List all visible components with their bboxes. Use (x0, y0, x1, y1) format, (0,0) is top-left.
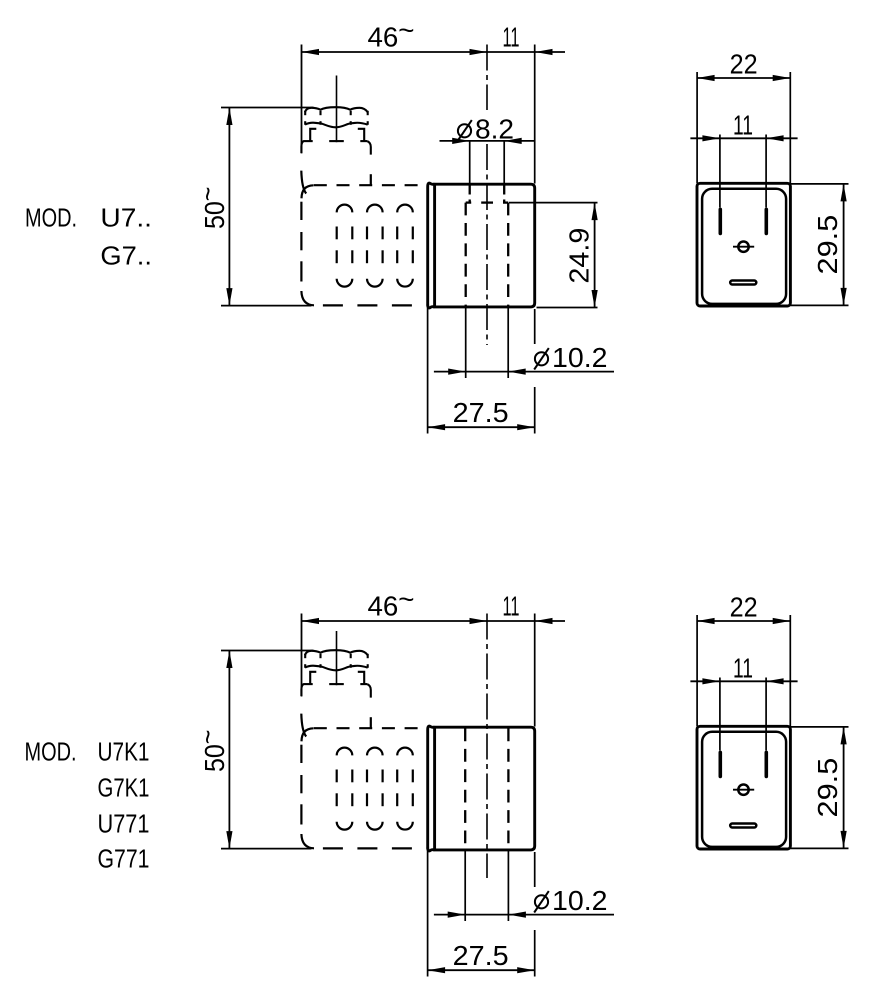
gland right leg (358, 672, 364, 684)
dimension 22 line (697, 618, 790, 624)
dimension 50~ top extension line (221, 107, 314, 109)
connector vent slot 3 (397, 205, 413, 287)
face ground slot (730, 281, 756, 285)
svg-text:11: 11 (733, 653, 753, 684)
dimension 11 face line (690, 135, 797, 141)
connector housing bottom edge dashed (323, 304, 428, 306)
svg-text:24.9: 24.9 (564, 228, 595, 284)
dimension 11 right extension line fig2 (534, 614, 536, 727)
dimension o10.2 line (434, 369, 614, 375)
svg-text:U7K1: U7K1 (98, 737, 150, 767)
dimension 50~ line (226, 108, 232, 306)
connector neck right dash (370, 174, 372, 185)
dimension 11 face extension lines (720, 678, 766, 751)
connector vent slot 2 (367, 205, 383, 287)
svg-text:G7..: G7.. (100, 241, 152, 271)
dimension o8.2 text (458, 124, 471, 137)
dimension 50~ bottom extension line (221, 848, 312, 850)
face ground slot (730, 824, 756, 828)
coil body outline (435, 727, 535, 850)
dimension 27.5 extension lines (428, 846, 535, 977)
coil hole o10.2 dashed lines (465, 729, 508, 850)
dimension o8.2 line (440, 138, 535, 144)
coil hole center line lower part (486, 144, 488, 345)
dimension 11 face line (690, 678, 797, 684)
connector housing left edge dashed (300, 202, 302, 282)
gland neck left side (301, 684, 303, 696)
dimension o10.2 text (535, 895, 548, 908)
svg-text:10.2: 10.2 (552, 885, 608, 916)
connector housing top edge dashed (314, 727, 428, 729)
coil hole o10.2 dashed lines (466, 203, 509, 306)
svg-text:10.2: 10.2 (552, 342, 608, 373)
svg-text:29.5: 29.5 (812, 758, 843, 818)
gland neck right side (367, 141, 371, 155)
svg-text:11: 11 (503, 22, 520, 53)
dimension 22 extension lines (697, 615, 790, 726)
face pin 1 (718, 209, 722, 233)
face screw slot line (733, 789, 754, 791)
connector housing top-left corner (302, 185, 314, 198)
svg-text:11: 11 (733, 110, 753, 141)
connector vent slot 1 (337, 748, 353, 830)
svg-text:G771: G771 (98, 844, 150, 874)
dimension 46~ left extension line (301, 614, 303, 697)
gland right leg (358, 129, 364, 141)
svg-text:MOD.: MOD. (25, 737, 77, 767)
svg-text:27.5: 27.5 (453, 397, 509, 428)
svg-text:22: 22 (730, 592, 758, 623)
gland center line (336, 631, 338, 685)
dimension 22 extension lines (697, 72, 790, 183)
dimension 27.5 line (428, 967, 535, 973)
dimension o10.2 hole extension lines (466, 308, 509, 379)
face center screw circle (738, 785, 748, 795)
face pin 1 (718, 752, 722, 776)
svg-text:MOD.: MOD. (25, 203, 77, 233)
dimension o10.2 line (434, 912, 614, 918)
coil hole step dashed line (466, 201, 509, 203)
dimension 29.5 extension lines (791, 727, 849, 849)
connector vent slot 3 (397, 748, 413, 830)
face outer outline (697, 726, 790, 849)
gland center line (336, 76, 338, 143)
dimension 46~ and 11 line (302, 49, 566, 55)
face inner outline (702, 189, 786, 304)
face outer outline (697, 183, 790, 306)
gland neck top dashed edge (303, 140, 367, 142)
svg-text:29.5: 29.5 (812, 215, 843, 275)
dimension 50~ bottom extension line (221, 305, 312, 307)
face center screw circle (738, 242, 748, 252)
svg-text:U7..: U7.. (100, 203, 152, 233)
dimension 29.5 line (841, 727, 847, 849)
dimension 50~ line (226, 651, 232, 849)
coil hole center line (486, 614, 488, 879)
gland wavy cap (305, 107, 368, 127)
dimension o10.2 hole extension lines (465, 851, 508, 922)
dimension 24.9 extension lines (509, 203, 598, 308)
connector vent slot 2 (367, 748, 383, 830)
dimension 50~ top extension line (221, 650, 314, 652)
face inner outline (702, 732, 786, 847)
dimension o10.2 text (535, 352, 548, 365)
dimension 46~ and 11 line (302, 618, 566, 624)
face pin 2 (764, 209, 768, 233)
connector neck left flare (301, 714, 306, 737)
connector vent slot 1 (337, 205, 353, 287)
connector housing bottom edge dashed (323, 847, 428, 849)
gland wavy cap (305, 650, 368, 670)
dimension 11 right extension line (534, 45, 536, 184)
connector neck right dash (370, 717, 372, 728)
dimension 24.9 line (592, 203, 598, 308)
gland neck right side (367, 684, 371, 698)
connector housing left edge dashed (300, 745, 302, 825)
dimension o8.2 extension lines (470, 141, 505, 184)
coil flange outline (428, 183, 435, 308)
svg-text:U771: U771 (98, 808, 150, 838)
connector housing bottom-left corner (301, 291, 314, 305)
gland neck top dashed edge (303, 683, 367, 685)
coil body outline (435, 184, 535, 307)
connector housing bottom-left corner (301, 834, 314, 848)
dimension 29.5 extension lines (791, 184, 849, 306)
connector housing top edge dashed (314, 184, 428, 186)
dimension 11 face extension lines (720, 135, 766, 208)
dimension 27.5 extension lines (428, 303, 535, 434)
gland neck left side (301, 141, 303, 153)
coil flange outline (428, 726, 435, 851)
gland left leg (310, 672, 316, 684)
connector housing top-left corner (302, 728, 314, 741)
svg-text:G7K1: G7K1 (98, 773, 150, 803)
coil hole o8.2 dashed lines (470, 186, 505, 203)
face pin 2 (764, 752, 768, 776)
dimension 29.5 line (841, 184, 847, 306)
coil hole center line (486, 45, 488, 111)
svg-text:27.5: 27.5 (453, 940, 509, 971)
svg-text:11: 11 (503, 591, 520, 622)
face screw slot line (733, 246, 754, 248)
gland left leg (310, 129, 316, 141)
connector neck left flare (301, 171, 306, 194)
svg-text:22: 22 (730, 49, 758, 80)
dimension 46~ left extension line (301, 45, 303, 154)
dimension 27.5 line (428, 424, 535, 430)
svg-text:8.2: 8.2 (475, 114, 514, 145)
dimension 22 line (697, 75, 790, 81)
